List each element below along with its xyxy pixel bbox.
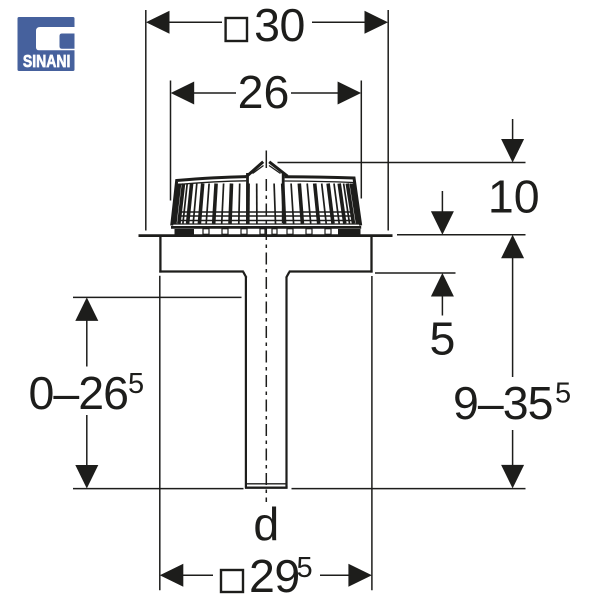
svg-text:5: 5 bbox=[429, 313, 455, 365]
svg-text:5: 5 bbox=[128, 368, 144, 400]
svg-text:d: d bbox=[253, 498, 279, 550]
svg-text:29: 29 bbox=[249, 550, 300, 600]
svg-text:0–26: 0–26 bbox=[29, 367, 128, 419]
svg-text:9–35: 9–35 bbox=[453, 377, 552, 429]
svg-text:26: 26 bbox=[238, 66, 290, 118]
svg-text:SINANI: SINANI bbox=[23, 51, 71, 71]
svg-text:5: 5 bbox=[555, 378, 571, 410]
svg-text:5: 5 bbox=[297, 552, 313, 584]
svg-text:30: 30 bbox=[254, 0, 305, 51]
svg-text:10: 10 bbox=[488, 171, 540, 223]
